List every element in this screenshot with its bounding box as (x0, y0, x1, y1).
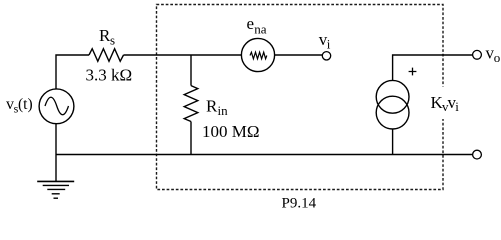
svg-text:o: o (494, 50, 501, 65)
label R_s (99, 26, 115, 47)
svg-text:P9.14: P9.14 (282, 195, 317, 211)
wire: vs top to Rs left (56, 55, 89, 89)
label e_na (247, 14, 267, 36)
svg-text:na: na (254, 22, 267, 37)
wire: e_na right to v_i terminal (275, 54, 323, 56)
voltage source v_s(t) (39, 89, 74, 124)
wire: dependent source bottom to bottom rail (392, 129, 394, 155)
svg-text:(t): (t) (18, 96, 33, 113)
svg-text:100 MΩ: 100 MΩ (202, 122, 260, 141)
wire: dependent source top to v_o rail (393, 55, 473, 80)
svg-text:3.3 kΩ: 3.3 kΩ (86, 66, 133, 85)
resistor R_in vertical wires (190, 55, 192, 155)
label R_in (206, 97, 228, 118)
terminal v_i (322, 52, 330, 60)
bottom rail wire (56, 154, 473, 156)
label v_o (486, 44, 501, 65)
sine wave inside v_s (45, 97, 69, 115)
label v_i (319, 30, 331, 51)
resistor R_in zigzag (184, 86, 198, 122)
dependent source K_v v_i (two overlapping circles) (376, 80, 409, 129)
resistor R_s (89, 49, 124, 62)
svg-text:e: e (247, 14, 255, 33)
terminal v_o (top right) (473, 50, 482, 59)
ground (37, 181, 74, 198)
label v_s(t) (6, 96, 33, 116)
svg-text:R: R (206, 97, 218, 116)
terminal bottom right (473, 150, 482, 159)
svg-text:i: i (455, 99, 459, 114)
label K_v v_i (428, 87, 461, 120)
wire: Rs right to e_na left (through R_in tap node) (124, 54, 242, 56)
plus sign of dependent source (409, 68, 417, 76)
wire: vs bottom to ground (55, 124, 57, 182)
noise zigzag inside e_na (250, 52, 267, 59)
svg-text:i: i (327, 37, 331, 52)
svg-text:in: in (218, 103, 229, 118)
amplifier model boundary (dashed box) (157, 5, 444, 190)
noise source e_na circle (241, 38, 274, 71)
svg-text:s: s (110, 33, 115, 48)
